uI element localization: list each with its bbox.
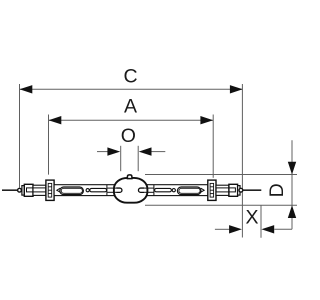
left foil outer	[60, 187, 84, 195]
right quartz tube	[144, 185, 216, 196]
left foil inner	[61, 188, 82, 193]
dimension O right arrow	[139, 147, 152, 155]
bulb nipple	[127, 175, 131, 179]
svg-text:O: O	[121, 125, 136, 147]
right foil inner	[179, 188, 200, 193]
right foil outer	[177, 187, 201, 195]
left electrode feed lines	[107, 188, 117, 192]
extension line C/X right	[241, 84, 243, 238]
right lead wire	[243, 189, 261, 191]
dimension O left arrow	[107, 147, 120, 155]
left bead	[18, 188, 22, 192]
dimension O left tail	[97, 151, 108, 153]
right bead	[239, 188, 243, 192]
svg-text:C: C	[124, 65, 138, 87]
extension line D top	[145, 174, 297, 176]
right electrode rod	[155, 188, 172, 191]
right cap block	[229, 184, 238, 196]
left weld circle	[86, 189, 89, 192]
extension line O left	[120, 146, 122, 171]
dimension X right tail	[274, 228, 292, 230]
dimension A left arrow	[49, 116, 62, 124]
svg-text:A: A	[124, 96, 137, 118]
svg-text:X: X	[245, 207, 258, 229]
left quartz tube	[54, 185, 115, 196]
right flange ladder	[210, 183, 214, 197]
right collar	[238, 186, 240, 196]
dimension O right tail	[152, 151, 166, 153]
left foil taper	[57, 188, 60, 192]
right foil taper	[201, 188, 204, 192]
bulb	[114, 178, 147, 203]
left tube section	[33, 185, 46, 195]
extension line X right	[260, 205, 262, 238]
right tube joint	[153, 185, 155, 196]
dimension A right arrow	[200, 116, 213, 124]
left flange	[46, 180, 54, 200]
dimension X left tail	[215, 228, 230, 230]
dimension D line	[291, 140, 293, 229]
right tube section	[216, 185, 229, 195]
left cap block	[24, 184, 33, 196]
dimension X right arrow	[261, 225, 274, 233]
dimension D top arrow	[288, 162, 296, 175]
left electrode	[116, 188, 122, 192]
right flange	[208, 180, 216, 200]
left flange ladder	[48, 183, 52, 197]
right inner conductor	[216, 188, 235, 192]
dimension X left arrow	[229, 225, 242, 233]
dimension C left arrow	[20, 85, 33, 93]
svg-text:D: D	[266, 183, 288, 197]
extension line O right	[137, 146, 139, 171]
extension line A left	[48, 115, 50, 175]
extension line C left	[19, 84, 21, 188]
right weld circle	[172, 189, 175, 192]
left lead wire	[2, 189, 18, 191]
dimension D bottom arrow	[288, 205, 296, 218]
left collar	[22, 186, 24, 196]
left tube joint	[106, 185, 108, 196]
dimension C line	[20, 88, 243, 90]
dimension C right arrow	[230, 85, 243, 93]
extension line A right	[212, 115, 214, 178]
left inner conductor	[27, 188, 46, 192]
extension line D bottom	[145, 204, 297, 206]
right electrode	[138, 188, 144, 192]
left electrode rod	[90, 188, 107, 191]
dimension A line	[49, 119, 214, 121]
right electrode feed lines	[143, 188, 153, 192]
